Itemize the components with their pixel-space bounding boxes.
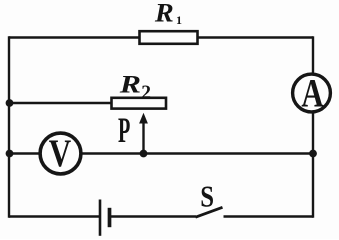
ammeter A [293, 74, 331, 112]
svg-text:R: R [154, 0, 174, 27]
node: right junction [309, 150, 317, 158]
wire: R2 branch wire [9, 102, 112, 104]
svg-text:2: 2 [141, 82, 151, 103]
wire: bottom-middle segment (battery to switch) [110, 215, 196, 217]
wire: top-left segment [9, 36, 140, 38]
wire: top-right segment [198, 36, 314, 38]
wire: bottom-right segment (switch to corner) [224, 215, 314, 217]
battery cell B1 [100, 200, 110, 236]
svg-text:A: A [301, 71, 323, 116]
svg-text:1: 1 [176, 13, 182, 27]
wire: right vertical upper (to ammeter) [312, 36, 314, 74]
resistor R1 [140, 31, 198, 44]
wire: bottom-left segment (to battery) [9, 215, 100, 217]
svg-text:S: S [200, 180, 214, 214]
switch S [196, 207, 223, 217]
resistor R2 (rheostat track) [112, 98, 167, 109]
wire: voltmeter wire left segment [9, 152, 40, 154]
voltmeter V [40, 133, 81, 174]
node: left junction with voltmeter wire [6, 150, 14, 158]
svg-text:R: R [119, 70, 141, 98]
svg-text:P: P [118, 111, 130, 150]
node: left junction with R2 wire [6, 99, 14, 107]
wire: right vertical lower (from ammeter) [312, 113, 314, 218]
rheostat R2 wiper arrow [139, 113, 148, 153]
svg-text:V: V [49, 132, 71, 175]
wire: left vertical [8, 36, 10, 217]
node: wiper junction [140, 150, 148, 158]
wire: voltmeter wire right segment [82, 152, 313, 154]
